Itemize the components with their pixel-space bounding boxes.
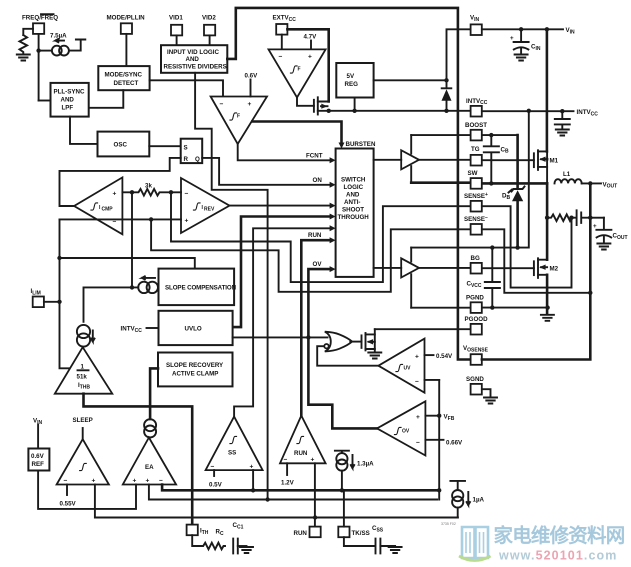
wire FREQ node into PLL-SYNC left (39, 100, 51, 102)
arrow OV into switch logic (330, 266, 336, 272)
wire IREV output to switch logic (230, 205, 331, 207)
wire latch Q to ON line (202, 158, 330, 185)
pin PGOOD (465, 316, 489, 335)
svg-text:+: + (113, 191, 117, 198)
wire UVLO to switch logic input (233, 217, 331, 328)
wire SS plus down to soft-start rail (252, 470, 254, 490)
latch SR U2 (181, 139, 203, 163)
driver TG (top gate) (374, 135, 419, 183)
wire UV output to gate lower input (317, 346, 378, 366)
wire node to current source (39, 50, 51, 52)
svg-text:SLEEP: SLEEP (73, 417, 93, 424)
pin SENSE- (464, 215, 488, 235)
transistor Q3 PGOOD pulldown (362, 329, 375, 351)
svg-text:LPF: LPF (62, 105, 74, 112)
svg-text:OV: OV (402, 429, 410, 435)
pin VOSENSE (463, 345, 489, 365)
sense capacitor C2 (572, 210, 591, 225)
pin SGND (466, 376, 484, 395)
wire threshold rail to slope comp block top (60, 258, 195, 268)
current source 1uA (450, 481, 484, 518)
pin BOOST (465, 122, 487, 141)
svg-text:TG: TG (471, 146, 480, 153)
wire L1 to VOUT terminal (582, 182, 601, 184)
svg-text:AND: AND (61, 97, 75, 104)
svg-text:THROUGH: THROUGH (338, 214, 370, 221)
label 0.66V (425, 439, 443, 441)
label 0.5V (213, 470, 215, 476)
svg-text:+: + (311, 457, 315, 464)
ground (FREQ resistor) (17, 55, 30, 61)
svg-text:VID1: VID1 (169, 15, 183, 22)
current mirror ITHB (77, 325, 95, 347)
op-amp EA error amplifier (123, 438, 176, 485)
wire TG line (419, 159, 534, 161)
svg-text:PGND: PGND (466, 294, 484, 301)
svg-text:MODE/PLLIN: MODE/PLLIN (107, 15, 146, 22)
wire EA plus2 to VID reference line (149, 485, 437, 500)
svg-text:5V: 5V (347, 73, 355, 80)
block SWITCH LOGIC AND ANTI-SHOOT THROUGH (336, 149, 374, 277)
node BG rail from INTVCC (527, 109, 531, 113)
wire UV minus to VFB (425, 379, 440, 381)
op-amp ICMP current comparator (74, 177, 122, 234)
op-amp SLEEP comparator (57, 428, 109, 485)
wire VIN rail down to M1 drain (546, 29, 549, 151)
node sense line (149, 217, 153, 221)
capacitor CSS to ground (344, 537, 402, 553)
capacitor INTVCC bypass (555, 109, 570, 136)
diode D1 (INTVCC to VIN) (442, 88, 452, 101)
wire current source to supply tick (70, 40, 85, 51)
node VIN rail (545, 27, 549, 31)
node DB anode on rail (515, 245, 519, 249)
svg-text:DETECT: DETECT (114, 80, 139, 87)
svg-text:M1: M1 (550, 157, 559, 164)
svg-text:0.6V: 0.6V (31, 453, 45, 460)
svg-text:−: − (416, 439, 420, 446)
wire SS comparator output to switch logic input (234, 228, 330, 416)
svg-text:UVLO: UVLO (185, 326, 202, 333)
current source 1.3uA (335, 451, 374, 493)
svg-text:ANTI-: ANTI- (344, 199, 361, 206)
wire MODE/SYNC detect to 0.6V comparator minus (150, 80, 223, 96)
wire ICMP output to latch R input (60, 158, 181, 206)
svg-text:RUN: RUN (294, 450, 308, 457)
arrow ON into switch logic (330, 182, 336, 188)
block 0.6V REF (28, 449, 49, 471)
block UVLO (159, 311, 233, 345)
pin VIN REF (33, 418, 43, 449)
gate PGOOD OR (324, 332, 352, 352)
pin BG (471, 255, 482, 274)
svg-text:AND: AND (346, 192, 360, 199)
arrow IREV into switch logic (330, 203, 336, 209)
svg-text:−: − (279, 54, 283, 61)
wire RUN plus to RUN pin (314, 463, 316, 526)
op-amp IREV reverse current comparator (181, 178, 230, 233)
svg-text:OV: OV (313, 261, 323, 268)
node CIN junction (519, 27, 523, 31)
transistor M1 (534, 150, 559, 183)
node diode bottom on INTVCC line (444, 109, 448, 113)
svg-text:0.55V: 0.55V (60, 501, 77, 508)
wire VOUT rail down right side (482, 183, 590, 359)
svg-text:UV: UV (404, 366, 412, 372)
svg-text:SENSE−: SENSE− (464, 215, 488, 223)
svg-text:VID2: VID2 (202, 15, 216, 22)
wire gate output to PGOOD MOSFET gate (350, 341, 361, 343)
node slope comp source (130, 285, 134, 289)
pin SENSE+ (464, 192, 488, 212)
svg-text:+: + (415, 353, 419, 360)
svg-text:ACTIVE CLAMP: ACTIVE CLAMP (172, 371, 218, 378)
wire SENSE- internal (to 3k/IREV) (171, 192, 471, 282)
block INPUT VID LOGIC AND RESISTIVE DIVIDERS (161, 45, 227, 73)
capacitor CIN (510, 29, 541, 60)
pin EXTVCC (273, 15, 297, 35)
resistor R (FREQ to gnd) (19, 35, 27, 54)
svg-text:+: + (510, 35, 514, 42)
wire BG line (419, 267, 534, 269)
block PLL-SYNC AND LPF (51, 83, 89, 117)
wire OSC to latch S input (149, 145, 180, 147)
wire EXTVCC pin to comparator minus (281, 35, 283, 50)
svg-text:SS: SS (228, 450, 236, 457)
op-amp UV comparator (378, 339, 424, 393)
pin TG (471, 146, 482, 166)
node OV to gate (306, 335, 310, 339)
wire ICMP minus to IREV plus (60, 218, 182, 220)
wire ICMP threshold rail down left side (60, 219, 69, 368)
wire ITHB output to ITH pin (84, 394, 193, 525)
wire BG driver top rail from INTVCC (411, 111, 529, 248)
wire slope recovery to EA current source (150, 368, 158, 419)
svg-text:+: + (248, 101, 252, 108)
wire SENSE+ internal (to ICMP network) (151, 219, 470, 291)
svg-text:+: + (308, 54, 312, 61)
svg-text:FCNT: FCNT (306, 152, 323, 159)
wire 0.6V to comparator plus (250, 80, 252, 97)
svg-text:RESISTIVE DIVIDERS: RESISTIVE DIVIDERS (164, 64, 227, 71)
svg-text:−: − (185, 191, 189, 198)
wire OV plus to VFB (425, 415, 439, 417)
arrow RUN into switch logic (330, 237, 336, 243)
svg-text:Q: Q (195, 156, 200, 163)
pin RUN (294, 527, 321, 538)
svg-text:PGOOD: PGOOD (465, 316, 489, 323)
svg-text:BG: BG (471, 255, 480, 262)
svg-text:PLL-SYNC: PLL-SYNC (54, 89, 85, 96)
svg-text:51k: 51k (77, 374, 88, 381)
wire FREQ pin left to resistor (23, 29, 33, 35)
svg-text:F: F (237, 114, 240, 120)
wire RUN comparator output to switch logic input (301, 240, 330, 415)
wire M2 source to power ground (546, 275, 549, 314)
svg-text:1.3µA: 1.3µA (357, 461, 374, 468)
resistor RC and capacitor CC1 to ground (192, 535, 253, 553)
sense resistor R2 (547, 214, 572, 221)
svg-text:AND: AND (186, 56, 200, 63)
svg-text:REV: REV (204, 207, 215, 213)
svg-text:家电维修资料网: 家电维修资料网 (494, 524, 625, 547)
svg-text:OSC: OSC (114, 142, 128, 149)
wire FREQ pin down to node (38, 34, 40, 101)
op-amp SS comparator (206, 417, 263, 471)
transistor M2 (534, 258, 559, 278)
pin SW (468, 170, 482, 189)
capacitor CVCC (467, 245, 500, 309)
op-amp ITHB buffer (55, 347, 113, 394)
current source EA (144, 419, 156, 437)
wire comparator tip to FCNT line (238, 144, 331, 160)
svg-text:R: R (184, 156, 189, 163)
wire SW line (411, 181, 547, 184)
node VID ref junction (265, 497, 269, 501)
svg-text:LOGIC: LOGIC (344, 184, 364, 191)
svg-text:SLOPE COMPENSATION: SLOPE COMPENSATION (165, 284, 237, 291)
svg-text:REG: REG (345, 81, 359, 88)
node ITH link (57, 256, 61, 260)
label 0.54V (425, 354, 434, 356)
wire VID divider down (to EA reference) (195, 73, 268, 500)
svg-text:0.6V: 0.6V (245, 73, 259, 80)
svg-text:SHOOT: SHOOT (342, 207, 364, 214)
pin VID1 (169, 15, 183, 36)
wire 0.6V REF to EA plus1 (38, 471, 136, 509)
svg-text:ON: ON (313, 177, 323, 184)
inductor L1 (555, 171, 582, 183)
arrow FCNT into switch logic (330, 157, 336, 163)
wire SGND to ground (482, 389, 491, 396)
wire VID1 to block (176, 35, 178, 45)
arrow BURSTEN into switch logic (339, 143, 345, 149)
svg-text:SLOPE RECOVERY: SLOPE RECOVERY (166, 362, 224, 369)
wire 5V REG right to diode node (374, 79, 447, 81)
node VOUT (588, 181, 592, 185)
wire comparator output to BURSTEN arrow (252, 122, 341, 145)
svg-text:−: − (220, 101, 224, 108)
block SLOPE COMPENSATION (159, 269, 237, 306)
wire UVLO to PGOOD gate (233, 336, 328, 338)
wire EXTVCC pin right down to MOSFET drain (287, 29, 328, 101)
transistor Q1 (EXTVCC pass PFET) (314, 97, 329, 114)
svg-text:SGND: SGND (466, 376, 484, 383)
block OSC (98, 132, 150, 157)
node ILIM (57, 300, 61, 304)
wire VIN line to terminal (482, 28, 563, 30)
svg-text:+: + (416, 414, 420, 421)
svg-text:REF: REF (32, 461, 45, 468)
capacitor CB (484, 133, 509, 186)
pin FREQ/FREQ (22, 14, 58, 34)
svg-text:CMP: CMP (102, 207, 114, 213)
arrow SS into switch logic (330, 225, 336, 231)
wire OV comparator output to switch logic input (308, 269, 377, 428)
svg-text:MODE/SYNC: MODE/SYNC (105, 71, 143, 78)
svg-text:www.520101.com: www.520101.com (498, 549, 617, 563)
node diode top (444, 78, 448, 82)
node 5V REG output on INTVCC line (352, 109, 356, 113)
arrow UVLO into switch logic (330, 214, 336, 220)
wire ICMP plus to 3k to IREV minus (122, 189, 181, 196)
watermark book icon (459, 527, 491, 561)
wire SENSE- external to VOUT rail (482, 229, 590, 292)
op-amp RUN comparator (280, 416, 326, 464)
pin PGND (466, 294, 484, 313)
label 1.2V (286, 463, 288, 475)
ground PGOOD MOSFET (368, 353, 381, 359)
svg-text:0.5V: 0.5V (209, 482, 223, 489)
pin TK/SS (338, 525, 384, 537)
wire VIN pin left down through diode to INTVCC line (447, 29, 471, 111)
svg-text:L1: L1 (563, 171, 571, 178)
wire 3k node down to slope comp source (131, 192, 133, 287)
op-amp 0.6V comparator (F) (211, 97, 267, 145)
wire MODE/PLLIN to MODE/SYNC DETECT (125, 34, 127, 66)
wire VFB node vertical (438, 380, 440, 500)
svg-text:S: S (184, 145, 188, 152)
node SW/SENSE resistor (545, 216, 549, 220)
wire 4.7V to comparator plus (310, 41, 312, 50)
svg-text:SENSE+: SENSE+ (464, 192, 488, 200)
svg-text:1.2V: 1.2V (281, 480, 295, 487)
block SLOPE RECOVERY ACTIVE CLAMP (158, 353, 233, 387)
current source 7.5uA (50, 32, 69, 55)
wire INPUT VID block right up to top rail to VOSENSE rail (227, 8, 470, 360)
pin VID2 (202, 15, 216, 36)
node PGND at M2 source rail (545, 305, 549, 309)
wire INTVCC line to terminal (482, 110, 574, 112)
svg-text:+: + (593, 223, 597, 230)
svg-text:RUN: RUN (294, 530, 308, 537)
op-amp EXTVCC comparator (F) (269, 49, 326, 97)
pin INTVCC (466, 98, 488, 117)
block 5V REG (336, 63, 373, 98)
wire PGND line (411, 307, 547, 309)
wire PGOOD MOSFET to pin (375, 328, 471, 330)
svg-text:SW: SW (468, 170, 478, 177)
pin ITH with RC CC1 (187, 522, 244, 537)
node 3k left (130, 190, 134, 194)
svg-text:RUN: RUN (308, 232, 322, 239)
node MOSFET source (327, 109, 331, 113)
wire PLL-SYNC to OSC (70, 117, 98, 144)
svg-text:BOOST: BOOST (465, 122, 487, 129)
wire BOOST line (411, 134, 517, 136)
wire SW rail down through sense node to M2 drain (546, 183, 549, 259)
node RUN pin rail (313, 515, 317, 519)
node 3k right (169, 190, 173, 194)
svg-text:F: F (298, 67, 301, 73)
wire SENSE+ external to sense RC (482, 206, 572, 287)
pin ILIM (31, 288, 60, 307)
svg-text:0.54V: 0.54V (436, 353, 453, 360)
svg-text:0.66V: 0.66V (446, 439, 463, 446)
wire INTVCC line (MOSFET source to INTVCC pin) (329, 110, 471, 112)
label 0.55V (66, 485, 68, 496)
svg-text:SWITCH: SWITCH (341, 177, 366, 184)
svg-text:INPUT VID LOGIC: INPUT VID LOGIC (167, 49, 219, 56)
wire EA minus to VFB line (162, 485, 437, 491)
svg-text:M2: M2 (550, 265, 559, 272)
op-amp OV comparator (377, 401, 425, 455)
node SENSE- at VOUT rail (588, 291, 592, 295)
node VFB (437, 414, 441, 418)
svg-text:+: + (185, 218, 189, 225)
current source slope compensation (132, 276, 159, 293)
svg-text:−: − (415, 379, 419, 386)
node FREQ junction (36, 48, 40, 52)
svg-text:EA: EA (145, 464, 154, 471)
capacitor COUT (593, 218, 628, 250)
wire EXTVCC comparator output to MOSFET gate (297, 98, 314, 106)
wire MODE/SYNC to PLL-SYNC (89, 90, 124, 108)
pin MODE/PLLIN (107, 15, 146, 34)
wire slope node to ITHB mirror (84, 287, 133, 321)
wire 5V REG bottom to INTVCC line (354, 98, 356, 111)
driver BG (bottom gate) (374, 248, 419, 308)
svg-text:3k: 3k (145, 183, 152, 190)
svg-text:BURSTEN: BURSTEN (346, 141, 376, 148)
node sense RC mid (569, 216, 573, 220)
wire COUT top tap on VOUT rail (590, 217, 604, 219)
pin VIN (470, 15, 482, 36)
block MODE/SYNC DETECT (98, 66, 149, 90)
svg-text:TK/SS: TK/SS (352, 530, 370, 537)
svg-text:FREQ/FREQ: FREQ/FREQ (22, 15, 58, 22)
wire SLEEP plus to TK/SS rail (95, 485, 458, 518)
svg-text:1µA: 1µA (473, 497, 485, 504)
diode DB (boost schottky) (502, 135, 525, 248)
svg-text:3735 F02: 3735 F02 (441, 522, 456, 526)
wire TK/SS pin up to soft-start node (343, 490, 345, 526)
node sense cap on VOUT rail (588, 216, 592, 220)
wire VID2 to block (209, 35, 211, 45)
